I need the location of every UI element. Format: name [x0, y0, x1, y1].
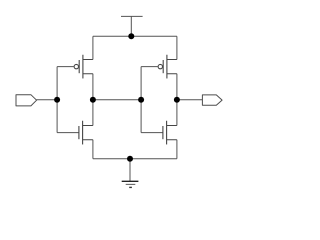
transistor Q1 PMOS left: [74, 55, 93, 79]
wire M2 gate lead: [57, 132, 78, 134]
node junction dot VDD rail: [128, 33, 134, 39]
wire left NMOS source drop: [92, 140, 94, 159]
transistor Q3 PMOS right: [158, 55, 177, 79]
wire node n1 horizontal: [93, 99, 141, 101]
wire input stub: [37, 99, 58, 101]
wire M3 gate lead: [141, 66, 158, 68]
ground: [122, 181, 139, 187]
wire ground rail: [93, 158, 177, 160]
wire left PMOS source drop: [92, 36, 94, 59]
node junction dot inverter1 output: [90, 97, 96, 103]
wire M1 gate lead: [57, 66, 74, 68]
wire ground stem: [129, 159, 131, 182]
wire M4 gate lead: [141, 132, 162, 134]
node junction dot inverter2 input: [138, 97, 144, 103]
wire right NMOS source drop: [176, 140, 178, 159]
node junction dot ground rail: [127, 156, 133, 162]
wire inverter2 input column vertical: [140, 67, 142, 133]
wire VDD top rail: [93, 35, 177, 37]
transistor Q2 NMOS left: [79, 121, 93, 145]
wire right PMOS source drop: [176, 36, 178, 59]
node junction dot output: [174, 97, 180, 103]
wire input column vertical: [56, 67, 58, 133]
wire output stub: [177, 99, 203, 101]
port IN: [16, 95, 37, 106]
transistor Q4 NMOS right: [163, 121, 177, 145]
wire inverter2 drain column: [176, 74, 178, 126]
power symbol VDD: [121, 16, 143, 36]
node junction dot input: [54, 97, 60, 103]
wire inverter1 drain column: [92, 74, 94, 126]
port OUT: [202, 95, 222, 105]
